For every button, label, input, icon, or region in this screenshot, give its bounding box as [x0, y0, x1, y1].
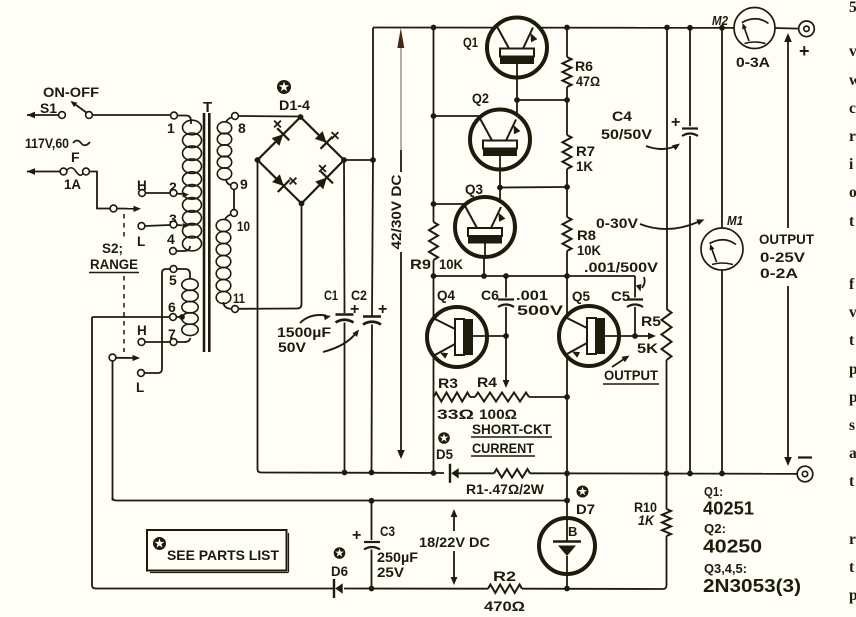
node base rail: [431, 273, 437, 279]
transistor Q1: [487, 18, 547, 78]
arrow line-in top: [27, 112, 35, 119]
svg-text:9: 9: [240, 176, 248, 192]
svg-text:1A: 1A: [64, 177, 81, 192]
svg-text:470Ω: 470Ω: [484, 598, 525, 614]
base rail: [434, 275, 636, 277]
transformer primary winding 5-7: [182, 279, 198, 291]
wire Q5 vertical: [566, 276, 568, 397]
switch S2 wiper pole2: [109, 354, 116, 361]
svg-text:C6: C6: [481, 288, 500, 303]
svg-text:+: +: [378, 301, 387, 318]
svg-text:100Ω: 100Ω: [479, 406, 517, 422]
wire Q2-Q3 link: [499, 169, 501, 201]
svg-text:s: s: [849, 417, 855, 434]
node Q4 base: [503, 333, 509, 339]
svg-text:42/30V DC: 42/30V DC: [388, 175, 404, 250]
node Q2-R7: [497, 185, 503, 191]
node bridge right: [341, 157, 347, 163]
svg-text:t: t: [849, 332, 855, 349]
svg-text:R6: R6: [575, 58, 593, 74]
svg-text:C3: C3: [380, 524, 395, 539]
switch S2 wiper pole1: [110, 205, 117, 212]
svg-text:c: c: [849, 100, 856, 117]
svg-text:R8: R8: [577, 227, 596, 243]
svg-text:D6: D6: [331, 564, 348, 579]
node C3 bottom: [369, 586, 375, 592]
svg-text:0-3A: 0-3A: [736, 54, 770, 70]
capacitor C3: [371, 501, 373, 540]
node B line: [564, 498, 570, 504]
diode D5: [449, 464, 451, 483]
svg-text:+: +: [671, 114, 680, 131]
wire Q2 emitter to R7: [500, 186, 567, 189]
svg-text:50/50V: 50/50V: [601, 126, 653, 142]
18/22V arrows: [453, 513, 455, 531]
link 9-10: [233, 189, 235, 209]
S2 linkage dashed: [123, 214, 125, 352]
wire Q4 left: [433, 276, 435, 473]
pointer to C4: [646, 146, 676, 149]
resistor R6: [566, 28, 568, 58]
svg-text:R3: R3: [438, 375, 458, 391]
node bridge bottom: [299, 201, 305, 207]
pointer to C1: [300, 315, 326, 323]
parts list box: [147, 530, 287, 571]
node C5 base: [632, 333, 638, 339]
svg-text:500V: 500V: [517, 303, 563, 318]
capacitor C5: [634, 276, 636, 298]
svg-text:Q2:: Q2:: [704, 522, 726, 536]
wire Q1-Q2 link: [516, 77, 518, 114]
svg-text:L: L: [136, 380, 144, 395]
resistor R1: [494, 469, 530, 477]
svg-text:t: t: [849, 473, 855, 490]
transformer core: [203, 113, 206, 352]
fuse F: [27, 171, 63, 173]
jack + output: [799, 21, 815, 37]
svg-text:Q2: Q2: [472, 90, 489, 106]
capacitor C1: [336, 313, 354, 316]
svg-text:8: 8: [238, 120, 246, 136]
zener B / D7: [539, 518, 595, 574]
svg-text:4: 4: [167, 231, 175, 247]
transistor Q5: [559, 306, 619, 366]
svg-text:25V: 25V: [377, 565, 404, 580]
wire R9 bottom: [433, 260, 435, 276]
svg-text:v: v: [849, 43, 856, 60]
svg-text:p: p: [849, 361, 856, 378]
wire Q2 collector stub: [434, 115, 485, 117]
svg-text:47Ω: 47Ω: [576, 73, 600, 89]
wire Q3 collector stub: [434, 203, 469, 205]
resistor R5: [662, 309, 672, 360]
bridge diode lower-left: [272, 174, 284, 186]
pointer to C2: [323, 333, 356, 352]
meter M1: [701, 228, 743, 270]
svg-text:C4: C4: [612, 109, 633, 124]
wire Q5 base to R5: [605, 335, 650, 337]
svg-text:10K: 10K: [439, 256, 463, 272]
node bridge left: [255, 157, 261, 163]
svg-text:o: o: [849, 184, 856, 201]
svg-text:5K: 5K: [637, 340, 658, 356]
svg-text:R9: R9: [410, 256, 431, 272]
svg-text:D1-4: D1-4: [279, 98, 311, 113]
minus rail: [258, 160, 445, 473]
wire Q3 emitter: [483, 257, 485, 276]
svg-text:Q1:: Q1:: [704, 485, 723, 499]
parts-list star D5: [438, 432, 450, 444]
svg-text:250µF: 250µF: [377, 550, 418, 565]
svg-text:+: +: [350, 301, 359, 318]
wire terminal 8 to bridge: [238, 115, 300, 118]
svg-text:.001/500V: .001/500V: [584, 259, 659, 275]
resistor R8: [566, 187, 568, 217]
svg-text:i: i: [849, 156, 854, 173]
node mid rail: [369, 498, 375, 504]
svg-text:r: r: [849, 128, 856, 145]
svg-text:0-25V: 0-25V: [760, 249, 806, 265]
wire S1 to terminal 1: [92, 114, 170, 116]
svg-text:10: 10: [237, 218, 250, 234]
pointer to M1: [640, 222, 698, 229]
svg-text:+: +: [352, 527, 361, 544]
svg-text:40250: 40250: [703, 537, 762, 557]
svg-text:0-2A: 0-2A: [760, 265, 798, 281]
meter M2: [734, 8, 775, 49]
wire Q4 base: [473, 335, 506, 337]
top rail: [373, 27, 735, 29]
svg-text:5: 5: [169, 272, 177, 288]
svg-text:1K: 1K: [576, 158, 593, 174]
svg-text:M1: M1: [727, 213, 743, 228]
svg-text:f: f: [849, 276, 855, 293]
svg-text:B: B: [568, 524, 577, 539]
svg-text:RANGE: RANGE: [90, 257, 138, 272]
svg-text:117V,60: 117V,60: [25, 136, 69, 151]
svg-text:R2: R2: [493, 568, 516, 584]
svg-text:p: p: [849, 389, 856, 406]
svg-text:R4: R4: [477, 374, 497, 390]
svg-text:40251: 40251: [703, 499, 754, 519]
svg-text:H: H: [137, 323, 147, 338]
svg-text:2N3053(3): 2N3053(3): [703, 576, 801, 596]
svg-text:CURRENT: CURRENT: [472, 440, 534, 456]
node Q1-R6: [514, 97, 520, 103]
svg-text:C1: C1: [324, 288, 338, 303]
output bracket arrows: [787, 37, 789, 228]
transformer secondary winding 10-11: [216, 219, 231, 231]
svg-text:Q3: Q3: [465, 181, 483, 197]
svg-text:R7: R7: [576, 143, 595, 159]
svg-text:0-30V: 0-30V: [596, 215, 639, 231]
svg-text:SEE PARTS LIST: SEE PARTS LIST: [167, 547, 279, 563]
capacitor C2: [372, 161, 373, 316]
transistor Q3: [455, 197, 515, 257]
capacitor C6: [505, 276, 507, 298]
transistor Q4: [427, 307, 487, 367]
svg-text:R1-.47Ω/2W: R1-.47Ω/2W: [466, 482, 544, 497]
svg-text:1500µF: 1500µF: [277, 324, 332, 340]
svg-text:OUTPUT: OUTPUT: [759, 231, 814, 247]
svg-text:D5: D5: [436, 447, 453, 462]
svg-text:a: a: [849, 445, 856, 462]
resistor R3: [434, 393, 471, 402]
svg-text:ON-OFF: ON-OFF: [43, 84, 99, 100]
svg-text:11: 11: [233, 290, 245, 306]
mid rail 18V: [113, 497, 568, 501]
wire C2 top: [372, 28, 374, 161]
wire C4 line: [689, 28, 691, 126]
bridge diamond: [258, 117, 345, 204]
resistor R10: [666, 474, 668, 510]
transformer primary winding 1-4: [183, 120, 202, 135]
svg-text:+: +: [799, 41, 810, 61]
svg-text:t: t: [849, 213, 855, 230]
switch S1: [27, 114, 62, 116]
wire R5 top: [666, 28, 668, 310]
pointer to C5: [642, 277, 645, 288]
svg-text:33Ω: 33Ω: [437, 406, 474, 422]
diode D6: [333, 579, 335, 598]
svg-text:w: w: [849, 72, 856, 89]
svg-text:r: r: [849, 531, 856, 548]
transistor Q2: [470, 110, 530, 170]
wire C1 line: [343, 161, 346, 313]
svg-text:10K: 10K: [577, 242, 601, 258]
svg-text:M2: M2: [712, 13, 729, 28]
bridge diode upper-left: [272, 134, 284, 146]
svg-text:C5: C5: [611, 289, 631, 304]
resistor R9: [429, 222, 438, 260]
parts list star: [153, 537, 166, 550]
resistor R4: [470, 396, 475, 398]
svg-text:Q1: Q1: [463, 34, 478, 50]
svg-text:.001: .001: [516, 288, 549, 303]
42/30V DC arrow line: [400, 48, 402, 150]
svg-text:D7: D7: [576, 502, 595, 517]
node R4 right: [564, 394, 570, 400]
wire M1 line: [721, 28, 723, 228]
wire 6-line: [92, 316, 170, 318]
wire C6 to R4 wiper: [505, 336, 507, 381]
svg-text:SHORT-CKT: SHORT-CKT: [472, 421, 551, 437]
svg-text:Q5: Q5: [572, 288, 590, 304]
wire bridge right to C2 line: [344, 159, 373, 161]
bridge diode lower-right: [315, 178, 327, 190]
svg-text:t: t: [849, 559, 855, 576]
svg-text:18/22V DC: 18/22V DC: [419, 535, 490, 550]
bridge diode upper-right: [315, 131, 327, 143]
svg-text:6: 6: [168, 299, 176, 315]
parts-list star D6: [334, 547, 346, 559]
svg-text:S2;: S2;: [102, 241, 123, 256]
svg-text:1: 1: [167, 120, 175, 136]
svg-text:Q3,4,5:: Q3,4,5:: [704, 562, 747, 576]
svg-text:R5: R5: [641, 313, 661, 329]
jack - output: [797, 466, 813, 482]
svg-text:1K: 1K: [638, 513, 655, 528]
parts-list star D7: [577, 486, 589, 498]
resistor R2: [488, 585, 522, 593]
svg-text:50V: 50V: [278, 339, 307, 355]
minus output: [798, 456, 812, 458]
svg-text:OUTPUT: OUTPUT: [604, 367, 658, 383]
node bridge top: [298, 114, 304, 120]
pointer OUTPUT to R5: [612, 359, 624, 367]
wire R9 line top: [433, 28, 435, 223]
wire fuse to S2 wiper: [89, 172, 110, 209]
bottom rail: [96, 588, 334, 590]
resistor R7: [566, 100, 568, 135]
svg-text:L: L: [137, 234, 145, 249]
svg-text:F: F: [71, 149, 80, 165]
svg-text:5: 5: [849, 0, 856, 16]
transformer secondary winding 8-9: [217, 122, 231, 134]
svg-text:S1: S1: [40, 100, 57, 116]
wire bridge bottom to terminal 11: [239, 204, 302, 309]
svg-text:v: v: [849, 304, 856, 321]
node minus rail: [342, 470, 348, 476]
svg-text:p: p: [849, 587, 856, 604]
svg-text:Q4: Q4: [437, 287, 455, 303]
wire B line: [566, 397, 568, 589]
wire Q1 emitter to R6: [517, 99, 567, 101]
parts-list star D1-4: [277, 80, 291, 94]
